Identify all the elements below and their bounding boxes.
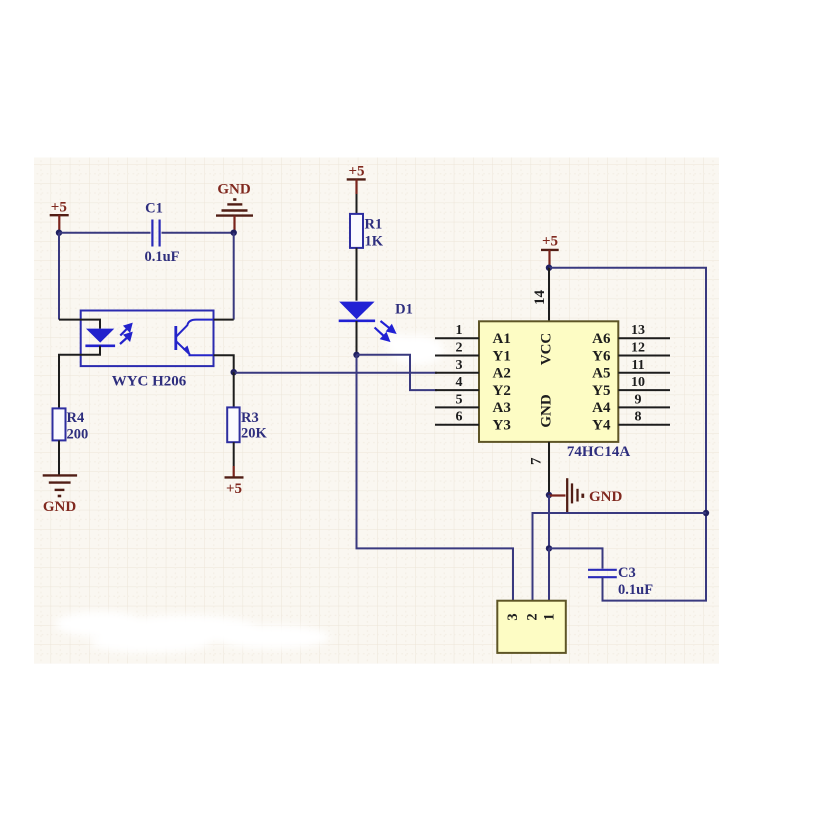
IC left pin 6 (435, 424, 479, 426)
IC right pin 11 (618, 372, 670, 374)
power port +5 (above IC pin 14) (541, 250, 559, 268)
svg-text:R4: R4 (67, 410, 85, 426)
svg-text:3: 3 (505, 613, 521, 620)
junction node opto emitter / R3 (231, 369, 237, 375)
svg-text:A2: A2 (493, 366, 511, 382)
junction node pin7/GND (546, 492, 552, 498)
IC pin 7 (548, 442, 550, 495)
svg-text:Y1: Y1 (493, 348, 511, 364)
white artifact blob right of D1 (386, 334, 444, 365)
wire junction to C3 top (549, 548, 603, 568)
svg-text:0.1uF: 0.1uF (618, 582, 653, 598)
capacitor C1 (152, 220, 159, 247)
IC right pin 8 (618, 424, 670, 426)
svg-text:10: 10 (631, 375, 645, 390)
IC pin 14 (548, 268, 550, 322)
wire +5 node down to optocoupler anode (58, 233, 60, 320)
IC left pin 2 (435, 355, 479, 357)
svg-text:2: 2 (525, 613, 541, 620)
power port +5 (above R1) (347, 179, 366, 194)
wire GND node down (548, 495, 550, 548)
svg-text:11: 11 (631, 358, 644, 373)
wire R1 to D1 (356, 248, 358, 301)
junction node +5 rail / pin2 wire (703, 510, 709, 516)
wire R4 to GND (58, 440, 60, 475)
optocoupler emission arrow 1 (120, 324, 131, 335)
svg-text:2: 2 (456, 341, 463, 356)
white artifact smear bottom left (55, 611, 330, 653)
svg-text:12: 12 (631, 341, 645, 356)
optocoupler emitter pin (214, 355, 234, 372)
svg-text:+5: +5 (348, 164, 364, 180)
svg-text:Y3: Y3 (493, 418, 511, 434)
resistor R1 (350, 214, 363, 248)
IC U1 74HC14A body (479, 321, 618, 442)
power port GND (top) (216, 200, 253, 233)
svg-text:C1: C1 (145, 201, 163, 217)
svg-text:5: 5 (456, 392, 463, 407)
junction node GND/C3 (546, 545, 552, 551)
wire +5 node to C1 (59, 232, 151, 234)
IC left pin 3 (435, 372, 479, 374)
D1 emission arrow 2 (375, 328, 389, 341)
svg-text:7: 7 (528, 457, 544, 465)
wire R3 to +5 (233, 442, 235, 466)
svg-text:D1: D1 (395, 302, 413, 318)
svg-text:GND: GND (43, 499, 77, 515)
wire C1 to GND node (162, 232, 234, 234)
svg-text:1: 1 (456, 323, 463, 338)
IC left pin 4 (435, 389, 479, 391)
svg-text:1K: 1K (365, 234, 384, 250)
wire junction to connector pin 1 (548, 548, 550, 600)
svg-text:3: 3 (456, 358, 463, 373)
svg-text:+5: +5 (226, 481, 242, 497)
svg-text:74HC14A: 74HC14A (567, 444, 631, 460)
svg-text:0.1uF: 0.1uF (144, 249, 179, 265)
optocoupler LED (86, 329, 114, 343)
svg-text:20K: 20K (241, 426, 268, 442)
power port +5 (top left) (50, 215, 69, 233)
power port +5 (below R3) (225, 466, 244, 477)
resistor R3 (227, 407, 239, 442)
junction node C1/GND/opto (231, 230, 237, 236)
svg-text:GND: GND (217, 182, 251, 198)
optocoupler cathode pin (59, 346, 100, 409)
svg-text:200: 200 (67, 427, 89, 443)
svg-text:A3: A3 (493, 400, 511, 416)
D1 emission arrow 1 (381, 321, 395, 332)
svg-text:A1: A1 (493, 331, 511, 347)
IC left pin 1 (435, 337, 479, 339)
svg-text:13: 13 (631, 323, 645, 338)
svg-text:Y6: Y6 (592, 348, 611, 364)
svg-text:9: 9 (635, 392, 642, 407)
IC right pin 9 (618, 406, 670, 408)
wire +5 node to right rail (549, 268, 706, 513)
svg-text:R1: R1 (365, 217, 383, 233)
svg-text:A5: A5 (592, 366, 610, 382)
IC right pin 10 (618, 389, 670, 391)
capacitor C3 (588, 570, 617, 577)
svg-text:VCC: VCC (539, 333, 555, 366)
wire opto emitter to IC pin 3 (234, 372, 437, 374)
svg-text:A4: A4 (592, 400, 611, 416)
LED D1 (339, 302, 374, 320)
optocoupler emission arrow 2 (120, 333, 131, 344)
svg-text:8: 8 (635, 410, 642, 425)
svg-text:1: 1 (542, 613, 558, 620)
wire GND node down to optocoupler collector (233, 233, 235, 320)
svg-text:C3: C3 (618, 565, 636, 581)
junction node D1 output (353, 352, 359, 358)
svg-text:Y4: Y4 (592, 418, 611, 434)
wire node down to R3 (233, 372, 235, 407)
svg-text:+5: +5 (51, 199, 67, 215)
optocoupler WYC H206 body (81, 311, 214, 367)
svg-text:A6: A6 (592, 331, 611, 347)
junction node at +5/C1 (56, 230, 62, 236)
optocoupler collector pin (214, 319, 234, 321)
svg-text:4: 4 (456, 375, 463, 390)
svg-text:Y2: Y2 (493, 383, 511, 399)
optocoupler anode pin (59, 320, 100, 329)
resistor R4 (53, 408, 66, 440)
connector body (497, 601, 566, 653)
optocoupler phototransistor (176, 320, 214, 356)
IC right pin 12 (618, 355, 670, 357)
junction node pin14/+5 (546, 265, 552, 271)
IC right pin 13 (618, 337, 670, 339)
svg-text:R3: R3 (241, 410, 259, 426)
svg-text:WYC H206: WYC H206 (112, 374, 187, 390)
svg-text:14: 14 (532, 290, 548, 306)
power port GND (bottom left) (43, 475, 77, 496)
wire D1 to node (356, 321, 358, 355)
wire rail to connector pin 2 (533, 513, 707, 601)
svg-text:Y5: Y5 (592, 383, 610, 399)
power port GND (sideways, at pin 7) (549, 478, 583, 512)
wire D1 node to IC pin 4 (357, 355, 438, 390)
svg-text:6: 6 (456, 410, 463, 425)
svg-text:+5: +5 (542, 233, 558, 249)
wire C3 bottom to +5 rail (603, 513, 707, 601)
IC left pin 5 (435, 406, 479, 408)
wire +5 to R1 (356, 194, 358, 214)
svg-text:GND: GND (539, 394, 555, 428)
svg-text:GND: GND (589, 489, 623, 505)
wire D1 node down to connector pin 3 (357, 355, 514, 601)
